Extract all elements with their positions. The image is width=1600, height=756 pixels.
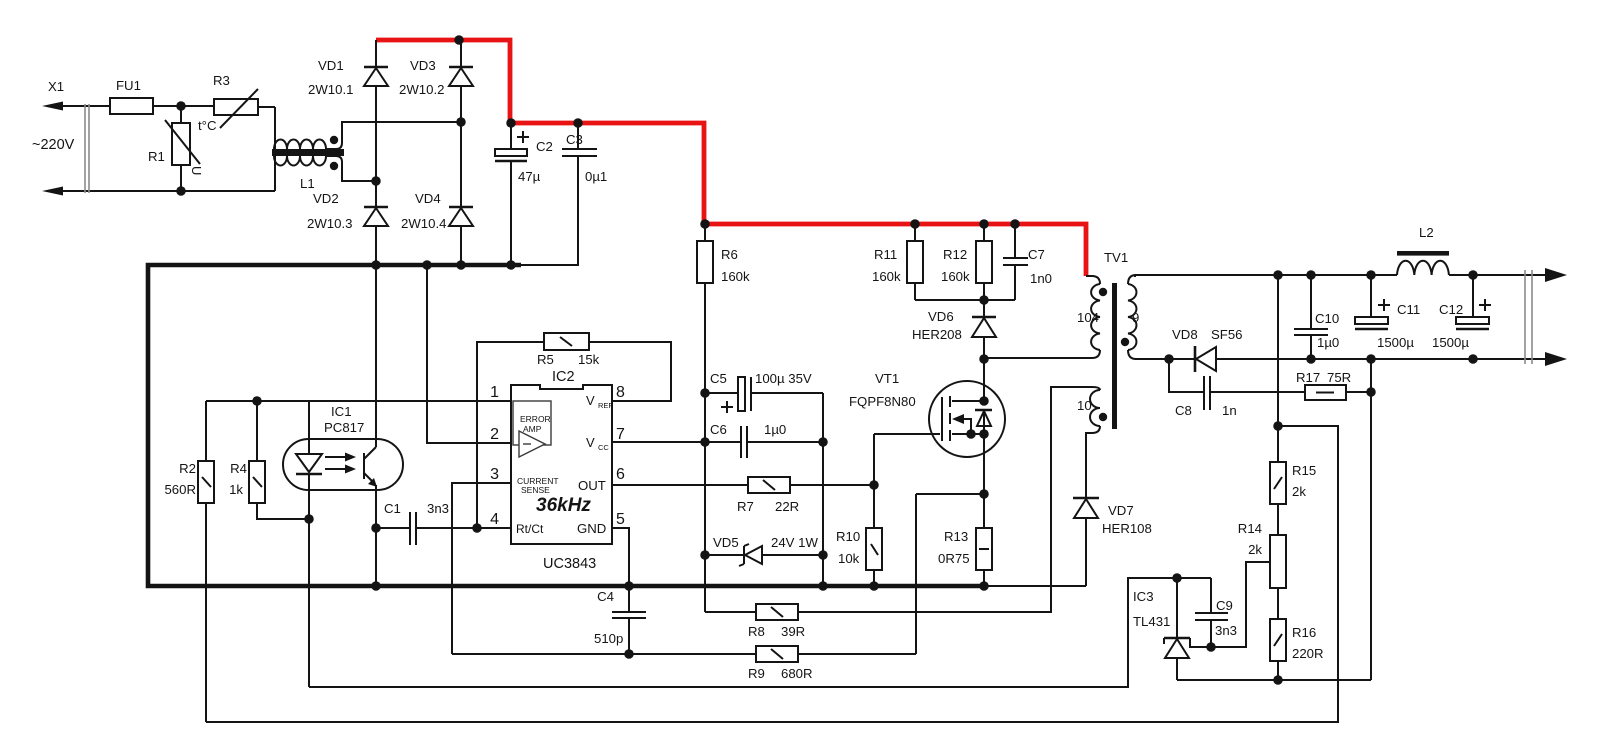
svg-text:R15: R15: [1292, 463, 1316, 478]
svg-text:8: 8: [616, 384, 625, 401]
svg-text:5: 5: [616, 511, 625, 528]
svg-text:15k: 15k: [578, 352, 600, 367]
svg-text:R4: R4: [230, 461, 247, 476]
svg-text:1500µ: 1500µ: [1377, 335, 1414, 350]
svg-text:560R: 560R: [164, 482, 196, 497]
svg-text:680R: 680R: [781, 666, 813, 681]
svg-text:C1: C1: [384, 501, 401, 516]
svg-text:t°C: t°C: [198, 118, 217, 133]
svg-text:X1: X1: [48, 79, 64, 94]
svg-text:10k: 10k: [838, 551, 860, 566]
svg-text:2k: 2k: [1292, 484, 1306, 499]
svg-text:510p: 510p: [594, 631, 623, 646]
svg-text:ERROR: ERROR: [520, 414, 551, 424]
svg-text:1k: 1k: [229, 482, 243, 497]
svg-text:C10: C10: [1315, 311, 1339, 326]
svg-text:0R75: 0R75: [938, 551, 970, 566]
svg-text:REF: REF: [598, 401, 613, 410]
svg-text:R7: R7: [737, 499, 754, 514]
svg-text:2W10.1: 2W10.1: [308, 82, 353, 97]
svg-text:1n0: 1n0: [1030, 271, 1052, 286]
svg-text:R8: R8: [748, 624, 765, 639]
svg-text:R9: R9: [748, 666, 765, 681]
svg-text:R13: R13: [944, 529, 968, 544]
svg-text:C6: C6: [710, 422, 727, 437]
svg-text:C7: C7: [1028, 247, 1045, 262]
svg-text:R1: R1: [148, 149, 165, 164]
svg-text:C11: C11: [1397, 302, 1420, 317]
svg-text:R14: R14: [1238, 521, 1262, 536]
svg-text:2W10.3: 2W10.3: [307, 216, 352, 231]
svg-text:220R: 220R: [1292, 646, 1324, 661]
svg-text:104: 104: [1077, 310, 1099, 325]
svg-text:HER108: HER108: [1102, 521, 1152, 536]
svg-text:39R: 39R: [781, 624, 805, 639]
svg-text:10: 10: [1077, 398, 1092, 413]
svg-text:UC3843: UC3843: [543, 556, 596, 572]
svg-text:VD2: VD2: [313, 191, 339, 206]
svg-text:TV1: TV1: [1104, 250, 1128, 265]
svg-text:47µ: 47µ: [518, 169, 541, 184]
svg-text:FU1: FU1: [116, 78, 141, 93]
svg-text:3n3: 3n3: [427, 501, 449, 516]
svg-text:VD5: VD5: [713, 535, 739, 550]
svg-text:1: 1: [490, 384, 499, 401]
svg-text:160k: 160k: [872, 269, 901, 284]
svg-text:2k: 2k: [1248, 542, 1262, 557]
svg-text:0µ1: 0µ1: [585, 169, 607, 184]
svg-text:IC1: IC1: [331, 404, 352, 419]
svg-text:VT1: VT1: [875, 371, 899, 386]
svg-text:C9: C9: [1216, 598, 1233, 613]
svg-text:~220V: ~220V: [32, 137, 75, 153]
svg-text:VD1: VD1: [318, 58, 344, 73]
svg-text:160k: 160k: [721, 269, 750, 284]
svg-text:C3: C3: [566, 132, 583, 147]
svg-text:1µ0: 1µ0: [1317, 335, 1339, 350]
svg-text:V: V: [586, 435, 595, 450]
svg-text:C2: C2: [536, 139, 553, 154]
svg-text:R11: R11: [874, 247, 897, 262]
svg-text:R6: R6: [721, 247, 738, 262]
svg-text:VD3: VD3: [410, 58, 436, 73]
svg-text:VD8: VD8: [1172, 327, 1198, 342]
svg-text:R12: R12: [943, 247, 967, 262]
svg-text:HER208: HER208: [912, 327, 962, 342]
svg-text:TL431: TL431: [1133, 614, 1170, 629]
svg-text:160k: 160k: [941, 269, 970, 284]
svg-text:1500µ: 1500µ: [1432, 335, 1469, 350]
svg-text:CC: CC: [598, 443, 609, 452]
svg-text:100µ 35V: 100µ 35V: [755, 371, 812, 386]
svg-text:R10: R10: [836, 529, 860, 544]
svg-text:U: U: [189, 166, 204, 175]
svg-text:C4: C4: [597, 589, 614, 604]
svg-text:C5: C5: [710, 371, 727, 386]
svg-text:R17: R17: [1296, 370, 1320, 385]
svg-text:C8: C8: [1175, 403, 1192, 418]
svg-text:2: 2: [490, 426, 499, 443]
svg-text:GND: GND: [577, 521, 606, 536]
svg-text:PC817: PC817: [324, 420, 364, 435]
svg-text:1µ0: 1µ0: [764, 422, 786, 437]
svg-text:Rt/Ct: Rt/Ct: [516, 522, 544, 536]
svg-text:L1: L1: [300, 176, 315, 191]
svg-text:SENSE: SENSE: [521, 485, 550, 495]
svg-text:R16: R16: [1292, 625, 1316, 640]
svg-text:7: 7: [616, 426, 625, 443]
svg-text:L2: L2: [1419, 225, 1434, 240]
svg-text:24V 1W: 24V 1W: [771, 535, 818, 550]
svg-text:6: 6: [616, 466, 625, 483]
svg-text:75R: 75R: [1327, 370, 1351, 385]
svg-text:IC2: IC2: [552, 369, 575, 385]
svg-text:1n: 1n: [1222, 403, 1237, 418]
svg-text:22R: 22R: [775, 499, 799, 514]
svg-text:3n3: 3n3: [1215, 623, 1237, 638]
svg-text:VD4: VD4: [415, 191, 441, 206]
svg-text:4: 4: [490, 511, 499, 528]
svg-text:IC3: IC3: [1133, 589, 1154, 604]
svg-text:3: 3: [490, 466, 499, 483]
svg-text:R5: R5: [537, 352, 554, 367]
svg-text:2W10.2: 2W10.2: [399, 82, 444, 97]
svg-text:C12: C12: [1439, 302, 1463, 317]
svg-text:SF56: SF56: [1211, 327, 1243, 342]
svg-text:2W10.4: 2W10.4: [401, 216, 446, 231]
svg-text:AMP: AMP: [523, 424, 542, 434]
svg-text:VD6: VD6: [928, 309, 954, 324]
svg-text:OUT: OUT: [578, 478, 606, 493]
svg-text:36kHz: 36kHz: [536, 495, 591, 516]
svg-text:VD7: VD7: [1108, 503, 1134, 518]
svg-text:V: V: [586, 393, 595, 408]
svg-text:R3: R3: [213, 73, 230, 88]
svg-text:FQPF8N80: FQPF8N80: [849, 394, 916, 409]
svg-text:R2: R2: [179, 461, 196, 476]
svg-text:9: 9: [1132, 310, 1139, 325]
